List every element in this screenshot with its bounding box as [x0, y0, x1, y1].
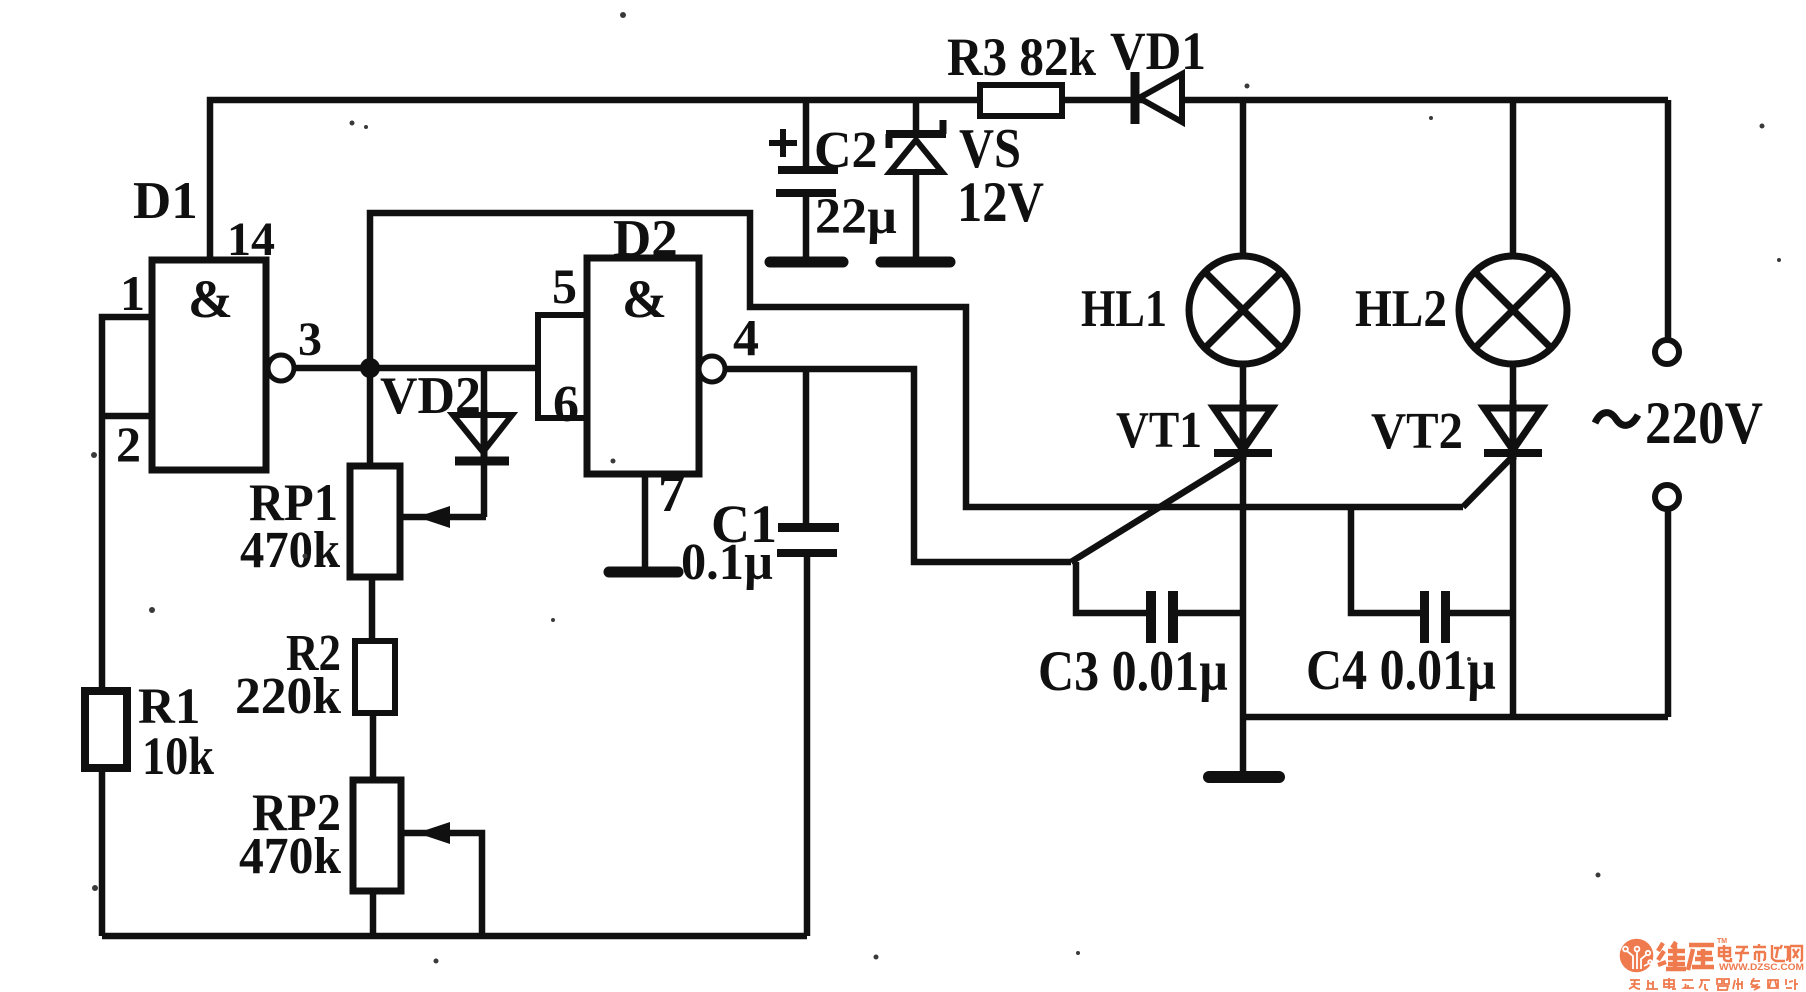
potentiometer RP2 body [353, 780, 401, 891]
svg-text:VD2: VD2 [380, 367, 481, 425]
svg-text:12V: 12V [957, 171, 1044, 234]
svg-text:470k: 470k [239, 828, 341, 885]
svg-text:HL2: HL2 [1355, 280, 1447, 338]
thyristor VT1 [1214, 400, 1272, 460]
svg-text:10k: 10k [142, 726, 214, 786]
capacitor C2 (electrolytic) [776, 166, 838, 197]
gate D2 body [587, 258, 699, 474]
svg-text:D1: D1 [133, 172, 198, 230]
wire RP2 bottom to bottom rail [370, 891, 377, 936]
node pin3 junction dot [360, 358, 380, 378]
svg-text:&: & [622, 269, 667, 329]
wire C4 right leg [1450, 610, 1513, 617]
watermark logo circle [1620, 939, 1654, 973]
wire R2 bottom to RP2 top [370, 713, 377, 781]
svg-text:6: 6 [553, 376, 579, 433]
AC terminal upper [1655, 340, 1679, 364]
wire D1 pin3 output to gate inputs 5/6 [295, 365, 538, 372]
wire VD2 branch vertical [481, 368, 488, 517]
wire C1 top leg tap from pin4 wire [803, 369, 810, 523]
svg-text:WWW.DZSC.COM: WWW.DZSC.COM [1719, 962, 1804, 973]
svg-text:C3 0.01µ: C3 0.01µ [1038, 640, 1228, 703]
ground for D2 pin7 [609, 567, 678, 578]
wire HL2 to VT2 anode and cathode run to rail [1510, 364, 1517, 717]
capacitor C1 [777, 523, 839, 557]
watermark subtitle 电子市场网 [1719, 944, 1802, 962]
potentiometer RP1 body [350, 466, 400, 577]
pin 3 inversion bubble [268, 355, 294, 381]
svg-text:4: 4 [733, 310, 759, 367]
ground bar under VS [881, 257, 950, 268]
wire D2 pin7 ground stem [642, 474, 649, 569]
ground bar under C2 [770, 257, 843, 268]
wire D2 pin4 output run [725, 369, 1071, 562]
wire lower AC terminal drop [1665, 510, 1672, 717]
resistor R2 [355, 641, 395, 713]
thyristor VT2 [1484, 400, 1542, 460]
ground for VT1 cathode [1209, 771, 1279, 783]
wire C4 left leg riser from gate wire [1351, 507, 1420, 613]
diode VD2 [453, 410, 512, 461]
svg-text:22µ: 22µ [815, 189, 897, 245]
wire pin3 node down to RP1 top [367, 368, 374, 466]
wire HL1 to VT1 anode and cathode run to ground [1240, 364, 1247, 772]
wire D1 pin2 stub [102, 413, 153, 420]
svg-text:R3 82k: R3 82k [947, 27, 1096, 87]
gate D1 body [152, 260, 266, 470]
svg-text:C4 0.01µ: C4 0.01µ [1306, 639, 1496, 702]
wire C2 top stem [803, 100, 810, 170]
wire D2 pins 5-6 tie bracket [538, 315, 587, 418]
wire right drop to upper AC terminal [1665, 100, 1672, 340]
resistor R3 [980, 85, 1062, 116]
svg-text:HL1: HL1 [1081, 280, 1167, 338]
wire VT2 gate diagonal [1463, 452, 1517, 507]
svg-text:0.1µ: 0.1µ [681, 534, 773, 591]
wire VS bottom stem [913, 171, 920, 260]
label ~220V [1595, 390, 1763, 456]
svg-text:C2: C2 [814, 122, 878, 179]
svg-text:1: 1 [120, 265, 145, 321]
wire HL2 feed from rail [1510, 100, 1517, 256]
wire RP2 wiper line and drop to bottom rail [402, 833, 482, 936]
svg-text:220k: 220k [235, 668, 341, 725]
diode VD1 [1135, 72, 1182, 124]
lamp HL2 [1459, 256, 1567, 364]
wire top supply rail [210, 100, 1668, 262]
wire VT1 gate diagonal [1071, 453, 1247, 562]
zener diode VS [886, 120, 946, 172]
resistor R1 [85, 691, 127, 768]
svg-text:VT1: VT1 [1116, 402, 1202, 459]
svg-text:VT2: VT2 [1371, 403, 1463, 460]
potentiometer RP1 wiper arrowhead [417, 506, 450, 528]
AC terminal lower [1655, 485, 1679, 509]
wire C2 bottom stem [803, 196, 810, 260]
capacitor C3 [1146, 591, 1178, 643]
svg-text:D2: D2 [613, 210, 678, 268]
wire pin3 node up-and-over to VT2 gate [370, 213, 1463, 507]
svg-text:470k: 470k [240, 522, 340, 579]
lamp HL1 [1189, 256, 1297, 364]
svg-text:5: 5 [552, 258, 577, 314]
capacitor C4 [1420, 591, 1450, 643]
wire VS top stem [913, 100, 920, 133]
pin 4 inversion bubble [699, 356, 725, 382]
wire D1 input pins 1-2 tie and drop to R1 [102, 317, 153, 693]
wire HL1 feed from rail [1240, 100, 1247, 256]
wire RP1 wiper line [401, 514, 486, 521]
wire C3 left leg [1076, 562, 1146, 613]
watermark tagline 专业电子元器件交易网站 [1629, 978, 1798, 990]
wire RP1 bottom to R2 top [369, 577, 376, 641]
svg-text:2: 2 [116, 416, 141, 472]
wire C1 bottom leg to bottom rail [804, 557, 811, 936]
wire bottom right return rail [1243, 714, 1668, 721]
watermark main title 维库 [1658, 942, 1714, 970]
potentiometer RP2 wiper arrowhead [417, 822, 450, 844]
svg-text:14: 14 [227, 213, 275, 266]
svg-text:7: 7 [658, 462, 686, 523]
wire R1 bottom to bottom rail [99, 768, 106, 936]
svg-text:TM: TM [1717, 938, 1727, 945]
svg-text:&: & [188, 269, 233, 329]
polarity + for C2 [769, 129, 797, 157]
svg-text:3: 3 [298, 313, 322, 366]
wire bottom ground rail [102, 933, 807, 940]
svg-text:VD1: VD1 [1110, 21, 1206, 81]
svg-text:220V: 220V [1645, 390, 1763, 456]
wire C3 right leg to VT1 cathode line [1177, 610, 1243, 617]
